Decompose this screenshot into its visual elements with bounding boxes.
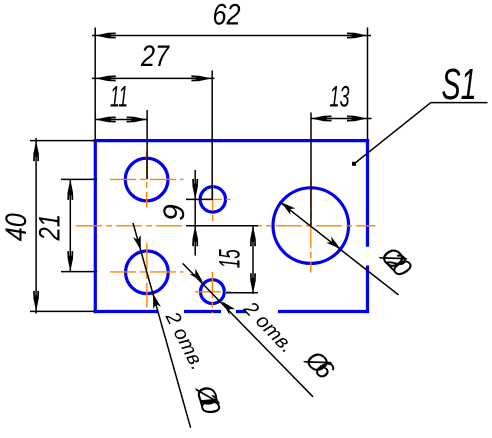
svg-text:13: 13 bbox=[330, 80, 350, 113]
svg-text:40: 40 bbox=[0, 213, 33, 241]
svg-text:27: 27 bbox=[140, 40, 170, 73]
svg-text:21: 21 bbox=[34, 214, 67, 241]
svg-text:15: 15 bbox=[214, 249, 247, 268]
svg-text:62: 62 bbox=[213, 0, 241, 32]
svg-text:S1: S1 bbox=[442, 60, 477, 109]
svg-text:9: 9 bbox=[158, 204, 191, 221]
svg-text:11: 11 bbox=[110, 80, 128, 113]
